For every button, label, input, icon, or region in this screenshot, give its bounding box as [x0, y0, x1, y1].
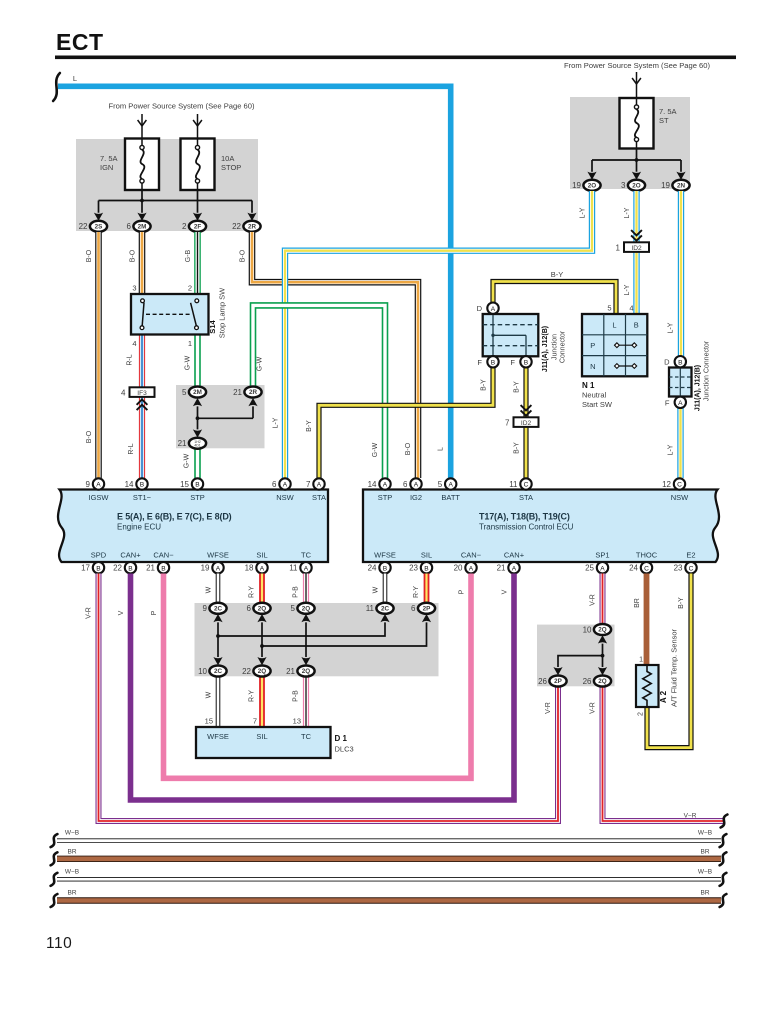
pin SIL 18A: [245, 562, 268, 573]
pin TC 11A: [289, 562, 312, 573]
svg-text:2P: 2P: [423, 606, 431, 613]
svg-text:2Q: 2Q: [258, 606, 267, 613]
svg-text:24: 24: [368, 564, 377, 573]
svg-text:A: A: [469, 565, 474, 572]
connector 2Q-5: [291, 603, 315, 614]
wire G-W 2R to STP trans: [253, 305, 385, 478]
pin STA 11C: [509, 478, 532, 489]
wire G-W 2G to STP engine: [194, 449, 201, 478]
pin NSW 6A: [272, 478, 291, 489]
svg-text:ID2: ID2: [521, 420, 532, 427]
svg-text:7: 7: [306, 480, 311, 489]
svg-text:B: B: [491, 359, 496, 366]
svg-text:C: C: [524, 482, 529, 489]
svg-text:4D1: 4D1: [194, 444, 201, 448]
svg-text:THOC: THOC: [636, 551, 658, 560]
BR bus 2 break squiggles: [51, 894, 58, 907]
wire V-R SPD to 2P: [99, 574, 559, 822]
wire B-Y E2 to A2 pin2: [647, 574, 691, 748]
harness gray box (IGN/STOP fuses): [76, 139, 258, 231]
pin junction2 B: [675, 356, 686, 367]
harness gray box (ST fuse): [570, 97, 690, 189]
arrow into 26-2P: [553, 667, 562, 675]
connector ID2 (7): [505, 417, 538, 427]
arrow into 10-2Q: [598, 635, 607, 643]
svg-text:A: A: [317, 482, 322, 489]
svg-text:F: F: [665, 398, 670, 407]
svg-text:WFSE: WFSE: [374, 551, 396, 560]
svg-text:10: 10: [198, 667, 207, 676]
svg-text:14: 14: [368, 480, 377, 489]
wire R-Y SIL engine to 2Q: [259, 574, 265, 603]
ST fuse output link lines: [592, 149, 681, 172]
arrows into 2S 2M 2F 2R: [94, 213, 103, 221]
wire L-Y through ID2 to N1 pin4: [633, 191, 639, 314]
junction connector J11(A),J12(B) right: [669, 368, 692, 397]
wire W-B bus 1: [57, 838, 721, 842]
svg-text:7. 5A: 7. 5A: [100, 154, 118, 163]
harness gray box (SP1 junction): [537, 625, 615, 687]
svg-text:A: A: [260, 565, 265, 572]
pin junction2 A: [675, 397, 686, 408]
wire L-Y 2N to junction connector: [678, 191, 684, 356]
svg-text:6: 6: [127, 222, 132, 231]
svg-text:STA: STA: [312, 493, 326, 502]
svg-text:A: A: [448, 482, 453, 489]
entry arrow to STOP fuse: [193, 120, 202, 126]
pin BATT 5A: [438, 478, 457, 489]
connector 2S: [79, 221, 108, 232]
svg-text:19: 19: [572, 181, 581, 190]
svg-text:Junction: Junction: [552, 334, 559, 360]
svg-text:G-W: G-W: [372, 442, 379, 457]
svg-text:BR: BR: [634, 598, 641, 608]
wire B-O IGSW: [95, 232, 102, 478]
harness gray box (2M/2R/2G junction): [176, 385, 265, 448]
svg-text:A 2: A 2: [659, 690, 668, 703]
pin ST1- 14B: [125, 478, 148, 489]
wire R-Y 2Q to DLC3: [259, 677, 265, 728]
wire B-Y junction B to STA trans: [523, 367, 528, 478]
wire L bus break squiggle: [53, 73, 60, 101]
svg-text:F: F: [510, 358, 515, 367]
svg-text:NSW: NSW: [671, 493, 689, 502]
pin WFSE 19A: [201, 562, 224, 573]
svg-text:V-R: V-R: [545, 702, 552, 714]
svg-text:From Power Source System (See: From Power Source System (See Page 60): [108, 102, 254, 111]
connector 2M-5: [182, 387, 206, 398]
svg-text:2: 2: [638, 712, 645, 716]
svg-text:BR: BR: [67, 849, 76, 856]
harness gray box (DLC3 junction): [195, 603, 439, 676]
svg-text:SP1: SP1: [595, 551, 609, 560]
svg-text:4: 4: [629, 304, 633, 313]
connector 2C-9: [203, 603, 227, 614]
wire P-B TC engine to 2Q: [303, 574, 309, 603]
svg-text:A: A: [96, 482, 101, 489]
svg-text:P-B: P-B: [293, 586, 300, 598]
svg-text:2R: 2R: [248, 224, 257, 231]
svg-text:5: 5: [607, 304, 611, 313]
svg-text:IGN: IGN: [100, 163, 113, 172]
svg-text:W−B: W−B: [65, 830, 79, 837]
svg-text:STA: STA: [519, 493, 533, 502]
svg-text:BR: BR: [700, 890, 709, 897]
svg-text:IF3: IF3: [137, 390, 147, 397]
svg-text:Neutral: Neutral: [582, 391, 607, 400]
svg-text:R-Y: R-Y: [249, 690, 256, 702]
svg-text:15: 15: [205, 717, 213, 726]
connector 2Q-10: [583, 624, 612, 635]
wire B-Y junction A to N1 pin5: [493, 282, 616, 315]
svg-text:G-W: G-W: [185, 355, 192, 370]
svg-text:A: A: [512, 565, 517, 572]
svg-text:CAN−: CAN−: [461, 551, 482, 560]
wire V-R SP1 to 2Q: [600, 574, 606, 624]
V-R break squiggle: [721, 815, 728, 828]
svg-text:9: 9: [203, 604, 208, 613]
svg-text:CAN+: CAN+: [504, 551, 525, 560]
svg-text:L-Y: L-Y: [668, 444, 675, 455]
pin STP 14A: [368, 478, 391, 489]
svg-text:N 1: N 1: [582, 381, 595, 390]
svg-text:B-Y: B-Y: [514, 442, 521, 454]
arrow into 26-2Q: [598, 667, 607, 675]
svg-text:BATT: BATT: [441, 493, 460, 502]
svg-text:C: C: [644, 565, 649, 572]
svg-text:B-O: B-O: [240, 249, 247, 262]
arrows into 2O 2O 2N: [587, 172, 596, 180]
junction link lines: [218, 622, 427, 657]
wire R-Y SIL trans to 2P: [424, 574, 430, 603]
arrow into 2M: [193, 398, 202, 406]
svg-text:E2: E2: [686, 551, 695, 560]
svg-text:R-L: R-L: [127, 354, 134, 365]
svg-text:A: A: [491, 306, 496, 313]
wire L-Y to NSW engine: [285, 191, 592, 478]
svg-text:V: V: [502, 589, 509, 594]
fuse 10A STOP: [181, 139, 215, 191]
connector 2C-11: [366, 603, 394, 614]
svg-text:B: B: [140, 482, 145, 489]
svg-text:B: B: [96, 565, 101, 572]
svg-text:Transmission Control ECU: Transmission Control ECU: [479, 523, 574, 532]
fuse 7.5A ST: [620, 98, 654, 149]
svg-text:N: N: [590, 362, 595, 371]
wire B-Y junction B to STA engine: [319, 367, 493, 478]
svg-text:W−B: W−B: [698, 830, 712, 837]
svg-text:B-Y: B-Y: [514, 381, 521, 393]
connector 2Q-26: [583, 676, 612, 687]
svg-text:4: 4: [132, 339, 136, 348]
svg-text:ST: ST: [659, 116, 669, 125]
svg-text:From Power Source System (See: From Power Source System (See Page 60): [564, 61, 710, 70]
svg-text:12: 12: [662, 480, 671, 489]
svg-text:STP: STP: [190, 493, 205, 502]
svg-text:6: 6: [411, 604, 416, 613]
entry arrow to ST fuse: [632, 78, 641, 84]
svg-text:2N: 2N: [677, 183, 686, 190]
svg-text:21: 21: [233, 388, 242, 397]
svg-text:2F: 2F: [194, 224, 202, 231]
svg-text:TC: TC: [301, 732, 312, 741]
svg-text:WFSE: WFSE: [207, 551, 229, 560]
entry arrow to IGN fuse: [138, 120, 147, 126]
arrows into row2 ovals: [213, 657, 222, 665]
wire B-O 2R to IG2: [252, 232, 418, 478]
svg-text:C: C: [689, 565, 694, 572]
svg-text:W: W: [206, 586, 213, 593]
svg-text:B: B: [524, 359, 529, 366]
svg-text:21: 21: [286, 667, 295, 676]
pin CAN- 20A: [454, 562, 477, 573]
svg-text:R-Y: R-Y: [249, 586, 256, 598]
svg-text:2M: 2M: [138, 224, 147, 231]
svg-text:V-R: V-R: [590, 702, 597, 714]
svg-text:A: A: [414, 482, 419, 489]
pin IG2 6A: [403, 478, 422, 489]
svg-text:7: 7: [253, 717, 257, 726]
wire G-W stop lamp pin1 to 2M: [194, 335, 201, 387]
svg-text:B-O: B-O: [130, 249, 137, 262]
svg-text:A: A: [216, 565, 221, 572]
pin SP1 25A: [585, 562, 608, 573]
svg-text:2Q: 2Q: [598, 627, 607, 634]
svg-text:ST1−: ST1−: [133, 493, 152, 502]
svg-text:Stop Lamp SW: Stop Lamp SW: [218, 287, 227, 338]
svg-text:B-O: B-O: [405, 442, 412, 455]
svg-text:SIL: SIL: [256, 732, 267, 741]
svg-text:V-R: V-R: [86, 607, 93, 619]
svg-text:Junction Connector: Junction Connector: [704, 340, 711, 401]
svg-text:C: C: [677, 482, 682, 489]
wire V CAN+ to CAN+: [131, 574, 515, 801]
svg-text:SIL: SIL: [256, 551, 267, 560]
svg-text:B: B: [161, 565, 166, 572]
svg-text:P-B: P-B: [293, 690, 300, 702]
svg-text:6: 6: [403, 480, 408, 489]
svg-text:D: D: [477, 304, 483, 313]
svg-text:WFSE: WFSE: [207, 732, 229, 741]
svg-text:R-Y: R-Y: [413, 586, 420, 598]
svg-text:B-Y: B-Y: [306, 420, 313, 432]
wire B-O to stop lamp sw pin3: [139, 232, 146, 294]
fuse output link lines: [99, 190, 253, 213]
connector 2Q-22: [242, 666, 271, 677]
svg-text:22: 22: [113, 564, 122, 573]
svg-text:1: 1: [639, 657, 643, 664]
pin SIL 23B: [409, 562, 432, 573]
svg-text:19: 19: [201, 564, 210, 573]
pin STP 15B: [180, 478, 203, 489]
svg-text:W−B: W−B: [65, 869, 79, 876]
pin CAN+ 21A: [497, 562, 520, 573]
svg-text:ECT: ECT: [56, 29, 104, 55]
svg-text:13: 13: [293, 717, 301, 726]
svg-text:Engine ECU: Engine ECU: [117, 523, 161, 532]
connector 2F: [182, 221, 206, 232]
svg-text:3: 3: [132, 284, 136, 293]
svg-text:A: A: [283, 482, 288, 489]
svg-text:7. 5A: 7. 5A: [659, 107, 677, 116]
svg-text:W−B: W−B: [698, 869, 712, 876]
svg-text:23: 23: [674, 564, 683, 573]
connector 2R-21: [233, 387, 262, 398]
svg-text:L: L: [612, 320, 616, 329]
svg-text:B-O: B-O: [86, 249, 93, 262]
connector IF3: [121, 387, 154, 397]
svg-text:ID2: ID2: [631, 245, 642, 252]
svg-text:1: 1: [616, 243, 621, 252]
svg-text:L-Y: L-Y: [580, 207, 587, 218]
svg-text:2R: 2R: [249, 389, 258, 396]
svg-text:G-W: G-W: [257, 356, 264, 371]
svg-text:A: A: [600, 565, 605, 572]
wire V-R 2Q to right break: [603, 687, 724, 821]
chevron into IF3: [137, 400, 148, 411]
pin junction A: [487, 303, 498, 314]
connector 2Q-6: [247, 603, 271, 614]
svg-text:STOP: STOP: [221, 163, 241, 172]
wire P-B 2Q to DLC3: [303, 677, 309, 728]
svg-text:P: P: [590, 341, 595, 350]
svg-text:5: 5: [291, 604, 296, 613]
wire W-B bus 2: [57, 877, 721, 881]
svg-text:NSW: NSW: [276, 493, 294, 502]
chevron into ID2 (1): [631, 230, 642, 241]
pin junction B right: [520, 356, 531, 367]
svg-text:2: 2: [182, 222, 187, 231]
svg-text:19: 19: [661, 181, 670, 190]
svg-text:TC: TC: [301, 551, 312, 560]
connector 2M: [127, 221, 151, 232]
switch S14 Stop Lamp SW: [131, 294, 209, 335]
svg-text:W: W: [373, 586, 380, 593]
svg-text:11: 11: [509, 480, 518, 489]
svg-text:CAN−: CAN−: [153, 551, 174, 560]
svg-text:Connector: Connector: [560, 330, 567, 363]
svg-text:B-Y: B-Y: [481, 379, 488, 391]
svg-text:1: 1: [188, 339, 192, 348]
arrow into 2R-21: [248, 398, 257, 406]
connector 2Q-21: [286, 666, 315, 677]
connector 2O-19: [572, 180, 601, 191]
wire R-L stop lamp pin4 to ST1-: [139, 335, 145, 479]
title underline: [55, 56, 736, 60]
wire W WFSE trans to 2C: [383, 574, 388, 603]
svg-text:B-O: B-O: [86, 430, 93, 443]
svg-text:BR: BR: [67, 890, 76, 897]
connector 2R: [232, 221, 261, 232]
connector 2G: [178, 438, 207, 449]
svg-text:STP: STP: [378, 493, 393, 502]
svg-text:SPD: SPD: [91, 551, 107, 560]
svg-text:21: 21: [146, 564, 155, 573]
svg-text:J11(A), J12(B): J11(A), J12(B): [695, 365, 702, 411]
svg-text:11: 11: [289, 564, 298, 573]
svg-text:D 1: D 1: [335, 734, 348, 743]
svg-text:4: 4: [121, 388, 126, 397]
wire P CAN- to CAN-: [164, 574, 472, 779]
W-B bus 2 break squiggles: [51, 873, 58, 886]
svg-text:L-Y: L-Y: [273, 417, 280, 428]
pin THOC 24C: [629, 562, 652, 573]
fuse 7.5A IGN: [125, 139, 159, 191]
svg-text:B-Y: B-Y: [551, 270, 564, 279]
svg-text:22: 22: [79, 222, 88, 231]
svg-text:17: 17: [81, 564, 90, 573]
svg-text:2C: 2C: [381, 606, 390, 613]
BR bus 1 break squiggles: [51, 852, 58, 865]
svg-text:B: B: [634, 320, 639, 329]
arrow into 2G: [193, 429, 202, 437]
svg-text:V−R: V−R: [684, 813, 697, 820]
connector 2P-6: [411, 603, 435, 614]
svg-text:D: D: [664, 358, 670, 367]
wire BR THOC to A2: [644, 574, 650, 666]
svg-text:L: L: [438, 447, 445, 451]
wire L-Y junction to NSW trans: [677, 407, 683, 478]
pin E2 23C: [674, 562, 697, 573]
svg-text:2Q: 2Q: [258, 668, 267, 675]
svg-text:A: A: [678, 400, 683, 407]
svg-text:2: 2: [188, 284, 192, 293]
switch N1 Neutral Start SW: [582, 314, 647, 376]
svg-text:P: P: [459, 589, 466, 594]
svg-text:18: 18: [245, 564, 254, 573]
svg-text:14: 14: [125, 480, 134, 489]
svg-text:V-R: V-R: [590, 594, 597, 606]
svg-text:15: 15: [180, 480, 189, 489]
svg-text:3: 3: [621, 181, 626, 190]
svg-text:L: L: [73, 74, 77, 83]
pin CAN- 21B: [146, 562, 169, 573]
svg-text:P: P: [151, 610, 158, 615]
svg-text:A: A: [304, 565, 309, 572]
svg-text:2Q: 2Q: [302, 606, 311, 613]
svg-text:F: F: [477, 358, 482, 367]
wire W 2C to DLC3: [216, 677, 221, 728]
connector ID2 (1): [616, 242, 649, 252]
svg-text:B: B: [128, 565, 133, 572]
svg-text:B: B: [678, 359, 683, 366]
pin NSW 12C: [662, 478, 685, 489]
svg-text:26: 26: [583, 677, 592, 686]
wire BR bus 1: [57, 856, 721, 862]
svg-text:E 5(A), E 6(B), E 7(C), E 8(D): E 5(A), E 6(B), E 7(C), E 8(D): [117, 512, 232, 522]
chevron into ID2 (7): [521, 405, 532, 416]
ECU E5-E8 Engine ECU box: [58, 490, 328, 563]
svg-text:L-Y: L-Y: [624, 284, 631, 295]
svg-text:21: 21: [497, 564, 506, 573]
pin WFSE 24B: [368, 562, 391, 573]
svg-text:11: 11: [366, 604, 375, 613]
sensor A2 A/T Fluid Temp Sensor: [636, 665, 659, 707]
svg-text:A: A: [383, 482, 388, 489]
svg-text:IG2: IG2: [410, 493, 422, 502]
svg-text:2O: 2O: [588, 183, 597, 190]
svg-text:L-Y: L-Y: [624, 207, 631, 218]
svg-text:J11(A), J12(B): J11(A), J12(B): [542, 326, 549, 372]
svg-text:24: 24: [629, 564, 638, 573]
svg-text:S14: S14: [208, 320, 217, 334]
svg-text:2Q: 2Q: [598, 678, 607, 685]
svg-text:2O: 2O: [632, 183, 641, 190]
svg-text:7: 7: [505, 418, 510, 427]
svg-text:T17(A), T18(B), T19(C): T17(A), T18(B), T19(C): [479, 512, 570, 522]
svg-text:6: 6: [247, 604, 252, 613]
svg-text:5: 5: [182, 388, 187, 397]
